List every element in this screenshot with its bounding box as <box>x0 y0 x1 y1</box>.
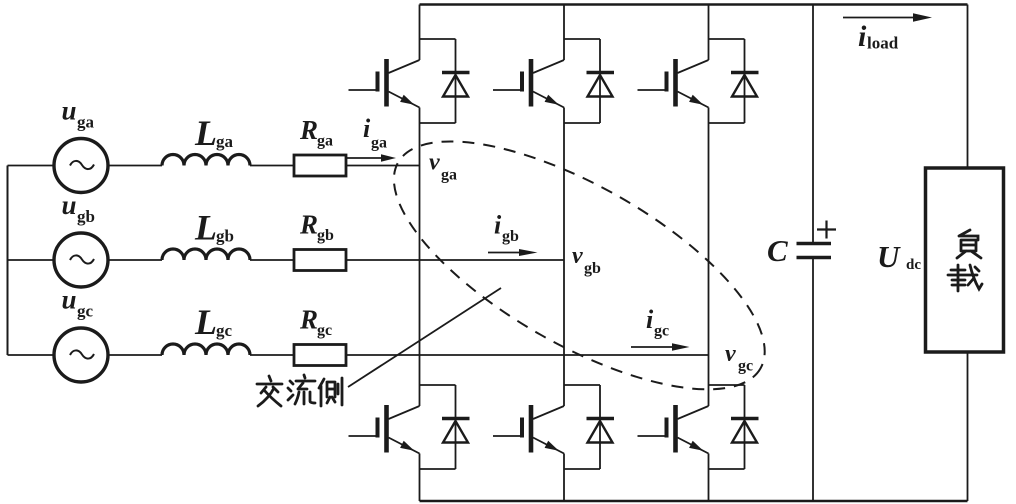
leader line <box>348 288 501 387</box>
voltage source u_gb <box>54 233 108 287</box>
svg-text:dc: dc <box>906 257 921 273</box>
label u_gb <box>62 190 95 226</box>
wire capacitor branch <box>812 5 814 502</box>
diode VD1 <box>442 39 470 123</box>
dashed ellipse ac side <box>359 93 800 437</box>
diode VD2 <box>731 385 759 469</box>
label i_load <box>858 20 899 53</box>
label U_dc <box>877 239 921 274</box>
svg-text:U: U <box>877 239 901 274</box>
current arrow i_gb <box>488 249 538 256</box>
svg-text:gb: gb <box>317 227 334 244</box>
current arrow i_load <box>843 13 932 22</box>
svg-text:i: i <box>363 114 371 143</box>
label jiaoliuce <box>257 375 342 406</box>
svg-text:ga: ga <box>216 132 234 151</box>
resistor R_ga <box>294 155 346 176</box>
svg-text:gb: gb <box>216 227 234 246</box>
svg-text:gc: gc <box>738 358 753 375</box>
wire leg B <box>563 5 565 502</box>
label R_gc <box>299 305 332 340</box>
svg-text:u: u <box>62 96 77 126</box>
svg-text:v: v <box>725 341 736 367</box>
svg-text:i: i <box>858 20 867 53</box>
diode VD5 <box>731 39 759 123</box>
diode VD6 <box>587 385 615 469</box>
label L_gb <box>194 208 234 248</box>
svg-text:R: R <box>299 210 318 240</box>
wire left neutral bus <box>7 166 9 356</box>
label L_gc <box>194 302 233 342</box>
wire phase C mid <box>250 354 294 356</box>
load box <box>926 168 1004 352</box>
svg-text:gc: gc <box>654 323 669 340</box>
node v_gc <box>725 341 753 375</box>
label i_gb <box>494 211 519 246</box>
svg-text:gc: gc <box>77 302 94 321</box>
inductor L_gb <box>162 249 250 260</box>
svg-text:ga: ga <box>77 113 95 132</box>
svg-text:C: C <box>767 233 788 268</box>
svg-text:gb: gb <box>584 260 601 277</box>
svg-text:ga: ga <box>371 135 387 152</box>
IGBT V4 <box>349 385 456 469</box>
svg-text:R: R <box>299 305 318 335</box>
diode VD3 <box>587 39 615 123</box>
svg-text:i: i <box>494 211 502 240</box>
wire phase A source <box>8 165 163 167</box>
capacitor plus <box>817 221 836 239</box>
inductor L_ga <box>162 155 250 166</box>
svg-text:gb: gb <box>502 228 519 245</box>
wire phase B mid <box>250 259 294 261</box>
node v_gb <box>572 243 601 277</box>
label i_gc <box>646 305 669 340</box>
resistor R_gb <box>294 250 346 271</box>
wire phase A mid <box>250 165 294 167</box>
svg-text:R: R <box>299 115 318 145</box>
svg-text:ga: ga <box>441 167 457 184</box>
wire phase C to bridge <box>346 354 709 356</box>
node v_ga <box>429 150 457 184</box>
wire top dc bus <box>420 3 968 6</box>
wire phase A to bridge <box>346 165 420 167</box>
voltage source u_gc <box>54 328 108 382</box>
wire leg A <box>419 5 421 502</box>
capacitor C <box>797 244 832 258</box>
diode VD4 <box>442 385 470 469</box>
svg-text:L: L <box>194 208 217 248</box>
IGBT V6 <box>493 385 600 469</box>
wire load branch <box>967 5 969 502</box>
label u_ga <box>62 96 95 132</box>
current arrow i_gc <box>631 343 690 351</box>
svg-text:u: u <box>62 285 77 315</box>
label fuzai <box>948 230 982 291</box>
inductor L_gc <box>162 344 250 355</box>
svg-text:i: i <box>646 305 654 334</box>
svg-text:ga: ga <box>317 133 333 150</box>
svg-text:L: L <box>194 113 217 153</box>
IGBT V2 <box>638 385 745 469</box>
resistor R_gc <box>294 345 346 366</box>
label L_ga <box>194 113 234 153</box>
svg-text:v: v <box>429 150 440 176</box>
svg-text:L: L <box>194 302 217 342</box>
svg-text:v: v <box>572 243 583 269</box>
IGBT V1 <box>349 39 456 123</box>
IGBT V3 <box>493 39 600 123</box>
voltage source u_ga <box>54 139 108 193</box>
svg-text:gb: gb <box>77 207 95 226</box>
IGBT V5 <box>638 39 745 123</box>
wire phase B source <box>8 259 163 261</box>
label u_gc <box>62 285 94 321</box>
wire bottom dc bus <box>420 500 968 503</box>
wire phase B to bridge <box>346 259 564 261</box>
wire phase C source <box>8 354 163 356</box>
label R_ga <box>299 115 333 150</box>
wire leg C <box>708 5 710 502</box>
current arrow i_ga <box>347 154 396 162</box>
label i_ga <box>363 114 387 152</box>
label R_gb <box>299 210 334 245</box>
svg-text:gc: gc <box>216 321 233 340</box>
svg-text:gc: gc <box>317 322 332 339</box>
svg-text:u: u <box>62 190 77 220</box>
svg-text:load: load <box>867 34 899 53</box>
